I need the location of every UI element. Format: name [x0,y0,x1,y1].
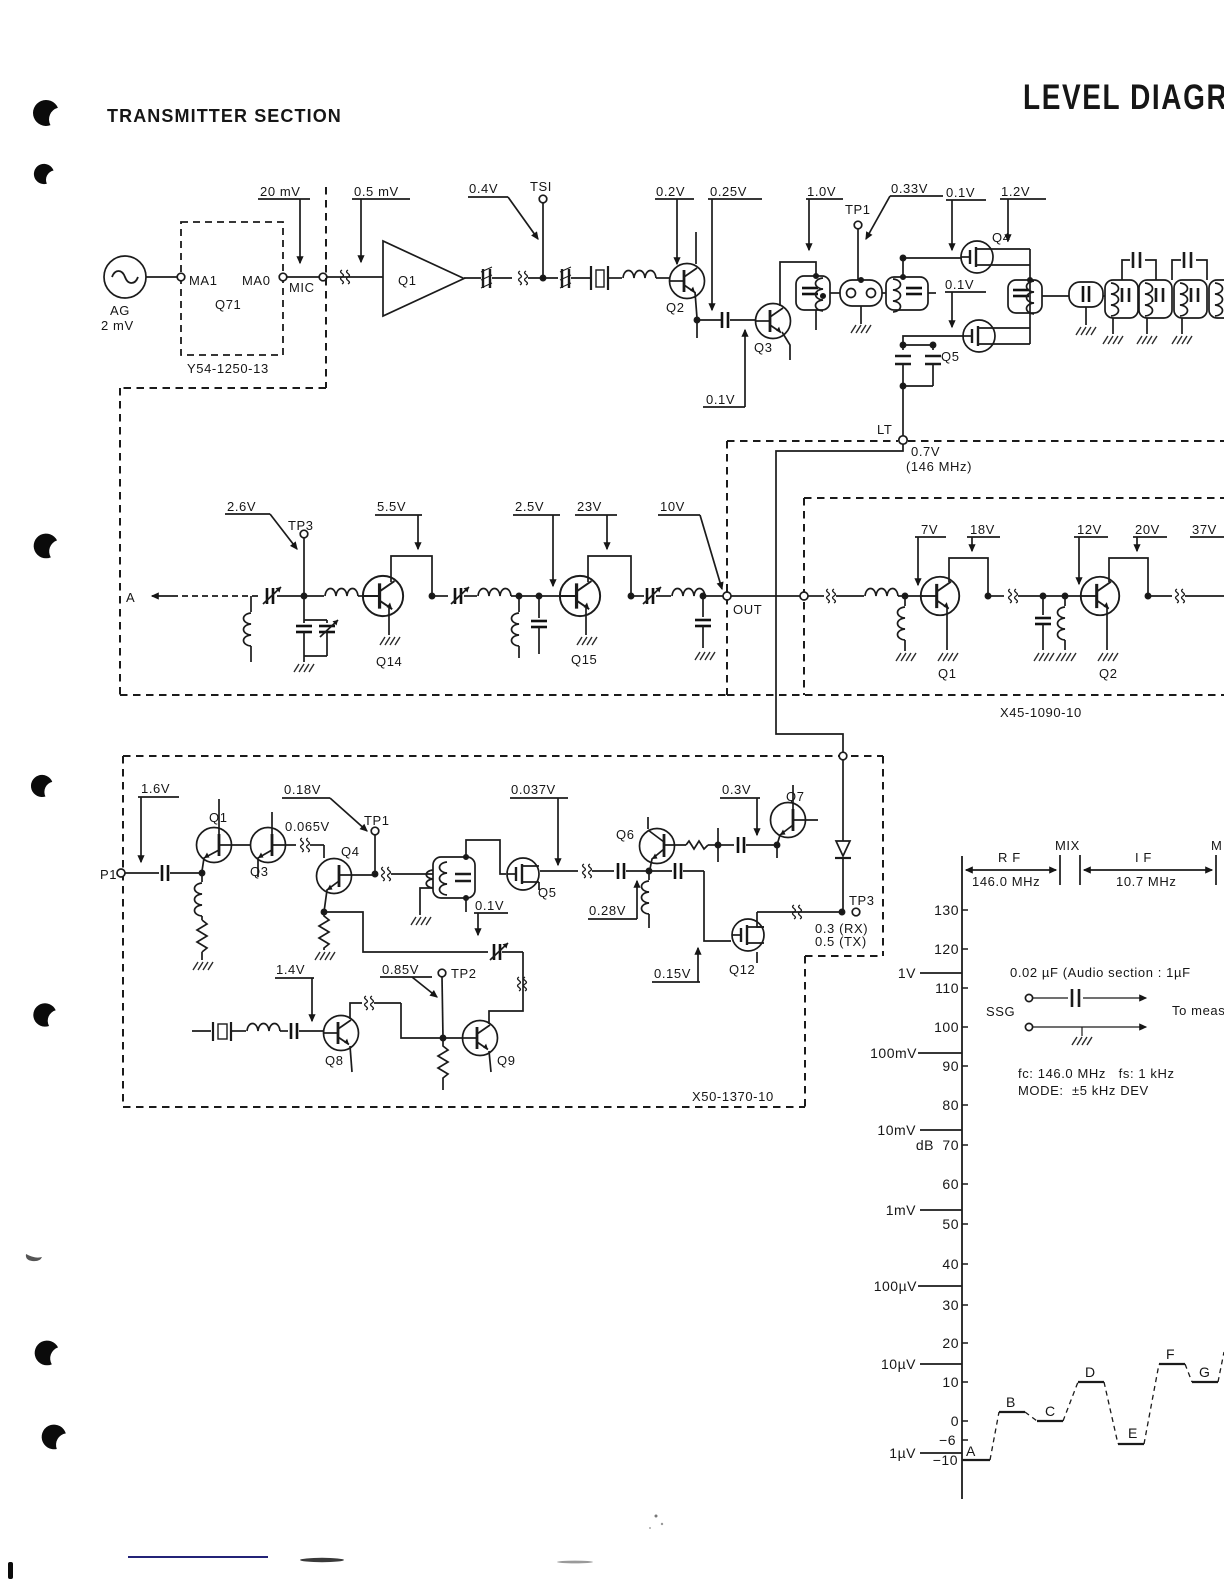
svg-text:Q5: Q5 [941,349,960,364]
svg-text:Q1: Q1 [398,273,417,288]
svg-text:0.15V: 0.15V [654,966,691,981]
svg-text:0.3V: 0.3V [722,782,751,797]
svg-text:100µV: 100µV [874,1278,917,1294]
svg-text:MODE: ±5 kHz DEV: MODE: ±5 kHz DEV [1018,1083,1149,1098]
svg-text:X45-1090-10: X45-1090-10 [1000,705,1082,720]
svg-text:110: 110 [935,980,959,996]
svg-text:100mV: 100mV [870,1045,917,1061]
svg-text:0.1V: 0.1V [945,277,974,292]
svg-text:120: 120 [934,941,959,957]
svg-text:100: 100 [934,1019,959,1035]
svg-text:Q14: Q14 [376,654,402,669]
svg-text:0.33V: 0.33V [891,181,928,196]
svg-text:M: M [1211,838,1222,853]
svg-text:0.02 µF (Audio section : 1µF: 0.02 µF (Audio section : 1µF [1010,965,1191,980]
svg-text:1.6V: 1.6V [141,781,170,796]
svg-text:0.5 mV: 0.5 mV [354,184,399,199]
svg-text:0.28V: 0.28V [589,903,626,918]
svg-text:10mV: 10mV [877,1122,916,1138]
svg-text:90: 90 [942,1058,959,1074]
svg-text:TP1: TP1 [364,813,390,828]
svg-text:TP3: TP3 [288,518,314,533]
svg-text:0.2V: 0.2V [656,184,685,199]
svg-text:10.7 MHz: 10.7 MHz [1116,874,1176,889]
svg-text:1V: 1V [898,965,916,981]
svg-text:40: 40 [942,1256,959,1272]
svg-text:OUT: OUT [733,602,762,617]
svg-text:LT: LT [877,422,892,437]
svg-text:R F: R F [998,850,1021,865]
svg-text:0.7V: 0.7V [911,444,940,459]
svg-text:Q71: Q71 [215,297,241,312]
svg-text:7V: 7V [921,522,938,537]
svg-text:20: 20 [942,1335,959,1351]
svg-text:1.0V: 1.0V [807,184,836,199]
svg-text:F: F [1166,1346,1175,1362]
svg-text:0.25V: 0.25V [710,184,747,199]
svg-text:−10: −10 [933,1452,958,1468]
svg-text:1.4V: 1.4V [276,962,305,977]
svg-text:TRANSMITTER SECTION: TRANSMITTER SECTION [107,106,342,126]
svg-text:Q8: Q8 [325,1053,344,1068]
svg-text:I F: I F [1135,850,1152,865]
svg-text:0.065V: 0.065V [285,819,330,834]
svg-text:D: D [1085,1364,1095,1380]
svg-text:Q6: Q6 [616,827,635,842]
svg-text:80: 80 [942,1097,959,1113]
svg-text:Q4: Q4 [341,844,360,859]
svg-text:0.18V: 0.18V [284,782,321,797]
svg-text:fc: 146.0 MHz fs: 1 kHz: fc: 146.0 MHz fs: 1 kHz [1018,1066,1175,1081]
svg-text:SSG: SSG [986,1004,1015,1019]
svg-text:0.5 (TX): 0.5 (TX) [815,934,867,949]
svg-text:Q2: Q2 [666,300,685,315]
svg-text:0.1V: 0.1V [475,898,504,913]
svg-text:AG: AG [110,303,130,318]
svg-text:30: 30 [942,1297,959,1313]
svg-text:0: 0 [951,1413,959,1429]
svg-text:TP3: TP3 [849,893,875,908]
svg-text:LEVEL DIAGRAM: LEVEL DIAGRAM [1023,77,1224,117]
svg-text:(146 MHz): (146 MHz) [906,459,972,474]
svg-text:A: A [126,590,135,605]
svg-text:37V: 37V [1192,522,1217,537]
svg-text:Q5: Q5 [538,885,557,900]
svg-text:0.1V: 0.1V [946,185,975,200]
svg-text:10: 10 [942,1374,959,1390]
svg-text:Q2: Q2 [1099,666,1118,681]
svg-text:Q1: Q1 [209,810,228,825]
svg-text:MIC: MIC [289,280,315,295]
svg-text:TSI: TSI [530,179,552,194]
svg-text:0.1V: 0.1V [706,392,735,407]
svg-text:23V: 23V [577,499,602,514]
svg-text:Q3: Q3 [250,864,269,879]
svg-text:Q4: Q4 [992,230,1011,245]
svg-text:TP2: TP2 [451,966,477,981]
svg-text:18V: 18V [970,522,995,537]
svg-text:MA1: MA1 [189,273,218,288]
svg-text:Q15: Q15 [571,652,597,667]
svg-text:10V: 10V [660,499,685,514]
svg-text:Q9: Q9 [497,1053,516,1068]
svg-text:MA0: MA0 [242,273,271,288]
svg-text:TP1: TP1 [845,202,871,217]
svg-text:dB: dB [916,1137,934,1153]
svg-text:A: A [966,1443,976,1459]
svg-text:20V: 20V [1135,522,1160,537]
svg-text:Y54-1250-13: Y54-1250-13 [187,361,269,376]
svg-text:2.6V: 2.6V [227,499,256,514]
svg-text:C: C [1045,1403,1055,1419]
svg-text:G: G [1199,1364,1210,1380]
svg-text:1.2V: 1.2V [1001,184,1030,199]
svg-text:2.5V: 2.5V [515,499,544,514]
svg-text:MIX: MIX [1055,838,1080,853]
svg-text:Q1: Q1 [938,666,957,681]
svg-text:10µV: 10µV [881,1356,916,1372]
svg-text:To meas: To meas [1172,1003,1224,1018]
svg-text:P1: P1 [100,867,117,882]
svg-text:Q12: Q12 [729,962,755,977]
svg-text:0.4V: 0.4V [469,181,498,196]
svg-text:Q7: Q7 [786,789,805,804]
svg-text:0.037V: 0.037V [511,782,556,797]
svg-text:Q3: Q3 [754,340,773,355]
svg-text:X50-1370-10: X50-1370-10 [692,1089,774,1104]
svg-text:1mV: 1mV [886,1202,916,1218]
svg-text:−6: −6 [939,1432,956,1448]
svg-text:20 mV: 20 mV [260,184,301,199]
svg-text:60: 60 [942,1176,959,1192]
svg-text:0.85V: 0.85V [382,962,419,977]
svg-text:B: B [1006,1394,1015,1410]
svg-text:5.5V: 5.5V [377,499,406,514]
svg-text:12V: 12V [1077,522,1102,537]
svg-text:1µV: 1µV [889,1445,916,1461]
svg-text:2 mV: 2 mV [101,318,134,333]
svg-text:50: 50 [942,1216,959,1232]
svg-text:146.0 MHz: 146.0 MHz [972,874,1040,889]
svg-text:130: 130 [934,902,959,918]
svg-text:70: 70 [942,1137,959,1153]
svg-text:E: E [1128,1425,1137,1441]
